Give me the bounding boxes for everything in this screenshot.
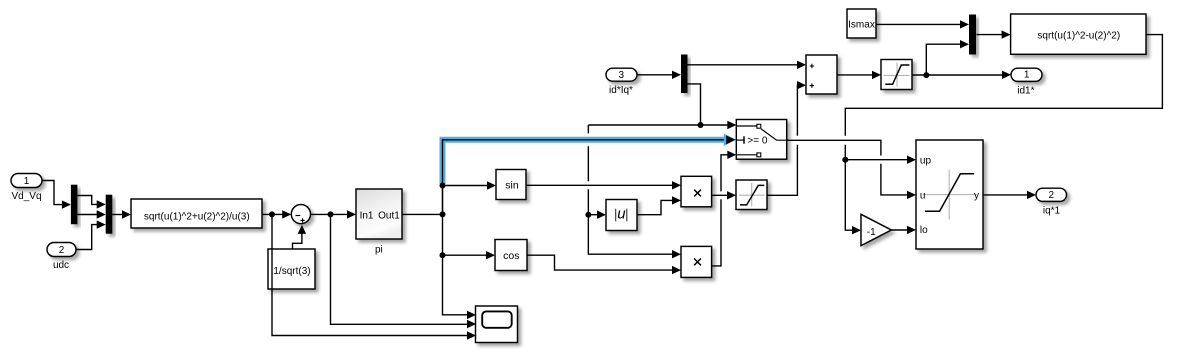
arrow into Sum1 left	[282, 210, 291, 218]
Sum1 circle	[291, 205, 310, 224]
wire: Ismax out to mux M2 in1	[876, 23, 961, 25]
node: Fcn-out branch	[269, 211, 275, 217]
wire: Product2 out up to Switch in3 (gap at product1-out crossing)	[712, 155, 728, 266]
Saturation Dynamic block	[916, 140, 983, 249]
svg-text:1: 1	[1024, 70, 1030, 81]
svg-text:sin: sin	[505, 180, 519, 192]
arrow into SatDyn u	[907, 191, 916, 199]
wire: junction to Sat-Dynamic up input	[845, 159, 907, 161]
mux M1	[106, 195, 113, 234]
node: pi-out branch	[440, 211, 446, 217]
switch in1 stub	[736, 125, 757, 127]
svg-text:>= 0: >= 0	[747, 135, 767, 146]
switch in3 stub	[736, 154, 757, 156]
arrow into mux M2 in1	[960, 20, 969, 28]
blue arrowhead into Switch	[724, 134, 737, 146]
arrow into Scope in2	[467, 320, 476, 328]
wire: 1/sqrt(3) out to Sum1 bottom	[293, 234, 302, 250]
arrow into Saturation1	[727, 191, 736, 199]
outport 2 iq*1	[1036, 188, 1067, 201]
switch criteria tick	[743, 136, 745, 143]
svg-text:-1: -1	[867, 227, 876, 238]
blue highlighted wire from pi-out junction to Switch in2	[443, 140, 729, 215]
wire: In2 udc to mux M1 in3	[76, 225, 97, 250]
svg-text:lo: lo	[920, 225, 928, 236]
arrow into Abs	[597, 211, 606, 219]
svg-text:sqrt(u(1)^2-u(2)^2): sqrt(u(1)^2-u(2)^2)	[1037, 30, 1120, 41]
svg-text:iq*1: iq*1	[1043, 206, 1061, 217]
demux D1	[71, 185, 78, 225]
arrow into SatDyn up	[907, 156, 916, 164]
Abs block |u|	[606, 200, 637, 231]
svg-text:Out1: Out1	[378, 210, 400, 221]
Fcn block sqrt(u(1)^2+u(2)^2)/u(3)	[131, 199, 262, 228]
arrow into Fcn	[122, 210, 131, 218]
arrow into Out2 port	[1027, 191, 1036, 199]
1/sqrt(3) block	[268, 249, 315, 289]
arrow into sin	[487, 181, 496, 189]
wire: Sum2 out to Saturation2	[837, 74, 873, 76]
arrow into Scope in1	[467, 311, 476, 319]
wire: Fcn-out branch crossing over 1/sqrt(3) block	[271, 249, 273, 289]
wire: Switch out to Sat-Dynamic u input	[787, 140, 908, 195]
Ismax constant block	[847, 9, 876, 38]
plus sign of Sum1	[300, 218, 304, 222]
wire: horizontal line y=125 to Switch in1	[588, 124, 728, 126]
node: sin branch	[440, 183, 446, 189]
outport 1 id1*	[1011, 68, 1042, 81]
Fcn2 block sqrt(u(1)^2-u(2)^2)	[1011, 14, 1146, 54]
node: Abs branch	[585, 212, 591, 218]
svg-text:u: u	[920, 191, 926, 202]
Saturation2 block	[881, 60, 912, 90]
svg-text:3: 3	[619, 70, 625, 81]
inport 1 Vd_Vq	[11, 174, 42, 188]
wire: junction to Abs block	[588, 214, 598, 216]
wire: junction to cos	[443, 254, 488, 256]
satdyn axes	[923, 170, 977, 220]
wire: demux D2 out1 to Sum2 in1	[688, 64, 799, 66]
svg-text:1: 1	[24, 176, 30, 187]
minus sign of Sum1	[296, 215, 301, 217]
arrow into Product1 in2	[672, 196, 681, 204]
arrow into pi	[347, 210, 356, 218]
arrow into Product1 in1	[672, 181, 681, 189]
wire: demux D2 out2 down to switch-criteria line	[688, 84, 701, 125]
Saturation1 block	[736, 180, 767, 210]
node: sat2-out branch	[923, 72, 929, 78]
mux M2	[969, 15, 976, 55]
wire: demux D1 out2 to mux M1 in2	[77, 214, 97, 216]
Sum2 block	[806, 55, 837, 94]
arrow into demux D2	[672, 71, 681, 79]
arrow into Gain	[852, 226, 861, 234]
arrow into mux M2 in2	[960, 40, 969, 48]
Switch block	[736, 120, 786, 160]
wire: Product1 out to Saturation1	[712, 194, 728, 196]
wire: Sat-Dynamic y out to Out2 port	[983, 194, 1027, 196]
wire: In3 id*Iq* to demux D2	[637, 74, 673, 76]
svg-text:Ismax: Ismax	[848, 19, 875, 30]
arrow into Sum2 in1	[797, 61, 806, 69]
svg-text:Vd_Vq: Vd_Vq	[11, 191, 41, 202]
wire: branch up from sat2-junction to mux M2 in2	[926, 44, 961, 75]
switch lever	[761, 129, 787, 140]
Scope block	[476, 306, 518, 343]
arrow up into Sum1 bottom	[298, 225, 306, 234]
wire: junction to sin	[443, 185, 489, 187]
sat1 axes	[739, 183, 765, 207]
arrow into Switch in1	[727, 121, 736, 129]
x glyph of Product1	[694, 190, 701, 197]
node: Sum1-out branch	[328, 211, 334, 217]
cos block	[495, 240, 527, 271]
sin block	[496, 170, 526, 200]
Product1 block	[681, 176, 712, 207]
arrow into Product2 in1	[672, 250, 681, 258]
arrow into Scope in3	[467, 331, 476, 339]
Product2 block	[681, 246, 712, 277]
node: switch-criteria branch	[698, 122, 704, 128]
arrow into Switch in3	[727, 151, 736, 159]
wire: branch Fcn out down to Scope in3	[272, 214, 467, 335]
svg-text:id1*: id1*	[1017, 86, 1034, 97]
wire: pi out to junction	[402, 213, 443, 215]
svg-text:up: up	[920, 156, 932, 167]
wire: Saturation2 out to Out1 port	[912, 74, 1003, 76]
arrow into Sum2 in2	[797, 81, 806, 89]
wire: vertical riser at x=442.5 pi-out to sin junction	[442, 186, 444, 215]
inport 2 udc	[47, 243, 76, 257]
svg-text:sqrt(u(1)^2+u(2)^2)/u(3): sqrt(u(1)^2+u(2)^2)/u(3)	[144, 212, 250, 223]
arrow into cos	[486, 251, 495, 259]
wire: Fcn2 out loop to junction x=845.3 (gap at switch-out crossing)	[845, 35, 1162, 160]
wire: Gain out to Sat-Dynamic lo input	[891, 229, 907, 231]
svg-text:id*Iq*: id*Iq*	[609, 85, 633, 96]
wire: Saturation1 out up to Sum2 in2 (gap at switch-out crossing)	[767, 85, 798, 195]
arrow into mux M1 in2	[97, 210, 106, 218]
arrow into demux D1	[62, 200, 71, 208]
wire: mux M2 out to Fcn2	[977, 34, 1003, 36]
wire: mux M1 to Fcn block	[112, 214, 123, 216]
wire: sin out to Product1 in1	[526, 184, 673, 186]
svg-text:2: 2	[59, 245, 65, 256]
arrow into Saturation2	[872, 71, 881, 79]
wire: Fcn out to Sum1 circle	[262, 213, 283, 215]
x glyph of Product2	[694, 259, 701, 266]
svg-text:2: 2	[1049, 190, 1055, 201]
svg-text:y: y	[974, 191, 979, 202]
svg-text:In1: In1	[360, 210, 374, 221]
sat1 curve	[740, 185, 764, 205]
demux D2	[681, 55, 688, 94]
switch port squares	[757, 124, 761, 128]
wire: cos out to Product2 in2	[527, 255, 673, 270]
svg-text:pi: pi	[375, 244, 383, 255]
wire: Abs out to Product1 in2	[637, 200, 673, 214]
svg-text:1/sqrt(3): 1/sqrt(3)	[273, 266, 310, 277]
svg-text:cos: cos	[503, 250, 519, 262]
sat2 axes	[884, 63, 910, 87]
inport 3 id*Iq*	[606, 68, 637, 81]
wire: In1 Vd_Vq to demux D1	[42, 181, 63, 205]
Gain -1 triangle	[861, 214, 891, 245]
svg-text:u: u	[617, 206, 626, 223]
arrow into mux M1 in1	[97, 200, 106, 208]
pi subsystem block	[356, 189, 402, 239]
wire: branch Sum1 out down to Scope in2	[331, 214, 468, 324]
arrow into Fcn2	[1002, 30, 1011, 38]
plus sign Sum2 in2	[810, 83, 814, 87]
plus sign Sum2 in1	[810, 64, 814, 68]
sat2 curve	[885, 65, 909, 84]
wire: demux D1 out1 to mux M1 in1	[77, 196, 97, 205]
node: cos branch	[440, 252, 446, 258]
wire: Sum1 out to pi subsystem	[310, 213, 348, 215]
arrow into Product2 in2	[672, 266, 681, 274]
arrow into Out1 port	[1002, 71, 1011, 79]
satdyn curve	[925, 174, 974, 211]
wire: junction down to Gain -1 input	[845, 160, 852, 231]
svg-text:udc: udc	[53, 260, 69, 271]
arrow into mux M1 in3	[97, 220, 106, 228]
arrow into SatDyn lo	[907, 226, 916, 234]
node: up/lo branch	[842, 157, 848, 163]
wire: vertical down x=442.5 to cos junction and Scope in1	[443, 214, 468, 314]
wire: vertical x=588.35 feeding |u| and Product2 (gaps at crossings)	[588, 125, 673, 254]
